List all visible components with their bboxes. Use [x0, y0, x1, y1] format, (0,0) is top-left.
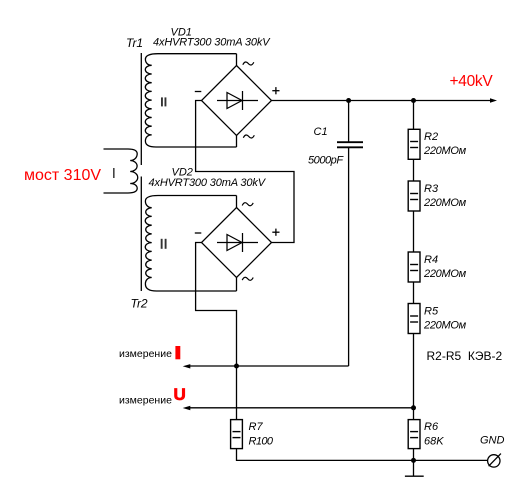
label II (Tr1 secondary winding) [162, 97, 166, 106]
junction node rail/C1 [346, 98, 351, 103]
junction node measurement I [234, 364, 239, 369]
bridge rectifier VD2 [195, 203, 280, 281]
resistor R4 [408, 252, 420, 282]
svg-text:C1: C1 [314, 126, 328, 138]
svg-text:220МОм: 220МОм [423, 145, 467, 157]
arrow measurement U [183, 406, 191, 410]
bridge rectifier VD1 [195, 62, 280, 138]
svg-text:измерение: измерение [119, 395, 172, 407]
svg-text:R2-R5 КЭВ-2: R2-R5 КЭВ-2 [427, 349, 503, 363]
wire Tr1 top lead to VD1 ac pin [236, 54, 238, 66]
svg-text:5000pF: 5000pF [308, 155, 344, 167]
wire rail to R2 [413, 101, 415, 130]
svg-text:220МОм: 220МОм [423, 320, 467, 332]
wire C1 to measurement I node [348, 148, 350, 366]
wire R5 to measurement U node [413, 334, 415, 408]
ground [405, 460, 424, 476]
wire Tr2 top lead to VD2 ac pin [236, 196, 238, 208]
wire R7 to ground bus [237, 449, 488, 461]
transformer Tr1 core [140, 53, 142, 165]
arrow measurement I [183, 364, 191, 368]
wire U node to R6 [413, 408, 415, 420]
svg-text:Tr1: Tr1 [126, 36, 143, 50]
svg-text:измерение: измерение [119, 348, 172, 360]
junction node measurement U / R6 [411, 405, 416, 410]
svg-text:220МОм: 220МОм [423, 268, 467, 280]
transformer Tr2 core [140, 177, 142, 292]
wire +40kV rail [272, 100, 491, 102]
transformer Tr1 secondary winding II [145, 54, 236, 147]
label I (primary winding) [113, 168, 115, 178]
wire Tr2 bottom lead to VD2 ac pin [236, 278, 238, 292]
measurement line I [189, 365, 349, 367]
svg-text:R3: R3 [424, 183, 439, 195]
resistor R6 [408, 420, 420, 449]
label II (Tr2 secondary winding) [162, 239, 166, 249]
measurement line U [189, 407, 414, 409]
capacitor C1 [337, 142, 363, 147]
svg-text:+40kV: +40kV [450, 73, 494, 90]
svg-text:R2: R2 [424, 131, 438, 143]
svg-text:R4: R4 [424, 254, 438, 266]
wire R4 to R5 [413, 282, 415, 304]
resistor R3 [408, 181, 420, 211]
svg-text:R5: R5 [424, 306, 439, 318]
wire I node to R7 [236, 366, 238, 420]
svg-text:GND: GND [480, 435, 505, 447]
svg-text:68K: 68K [424, 436, 444, 448]
wire R3 to R4 [413, 211, 415, 252]
svg-text:R6: R6 [424, 421, 439, 433]
arrow +40kV rail [490, 98, 497, 102]
svg-text:220МОм: 220МОм [423, 197, 467, 209]
resistor R2 [408, 129, 420, 159]
wire rail to C1 [348, 101, 350, 142]
transformer primary winding I [104, 149, 138, 193]
resistor R5 [408, 304, 420, 334]
transformer Tr2 secondary winding II [145, 196, 236, 292]
svg-text:U: U [174, 385, 186, 404]
label I (measurement) [175, 346, 180, 359]
svg-text:4xHVRT300 30mA 30kV: 4xHVRT300 30mA 30kV [153, 37, 271, 49]
wire R6 to ground bus [413, 449, 415, 461]
svg-text:4xHVRT300 30mA 30kV: 4xHVRT300 30mA 30kV [149, 177, 267, 189]
terminal GND [488, 454, 501, 467]
junction node ground bus [411, 458, 416, 463]
svg-text:мост 310V: мост 310V [24, 167, 101, 184]
wire VD1 minus to VD2 plus [196, 101, 294, 243]
resistor R7 [231, 420, 243, 449]
wire Tr1 bottom lead to VD1 ac pin [236, 136, 238, 148]
wire VD2 minus to measurement I node [196, 243, 237, 367]
junction node rail/R2 [411, 98, 416, 103]
svg-text:Tr2: Tr2 [131, 297, 148, 311]
wire R2 to R3 [413, 159, 415, 181]
svg-text:R100: R100 [249, 436, 274, 448]
svg-text:R7: R7 [249, 421, 264, 433]
